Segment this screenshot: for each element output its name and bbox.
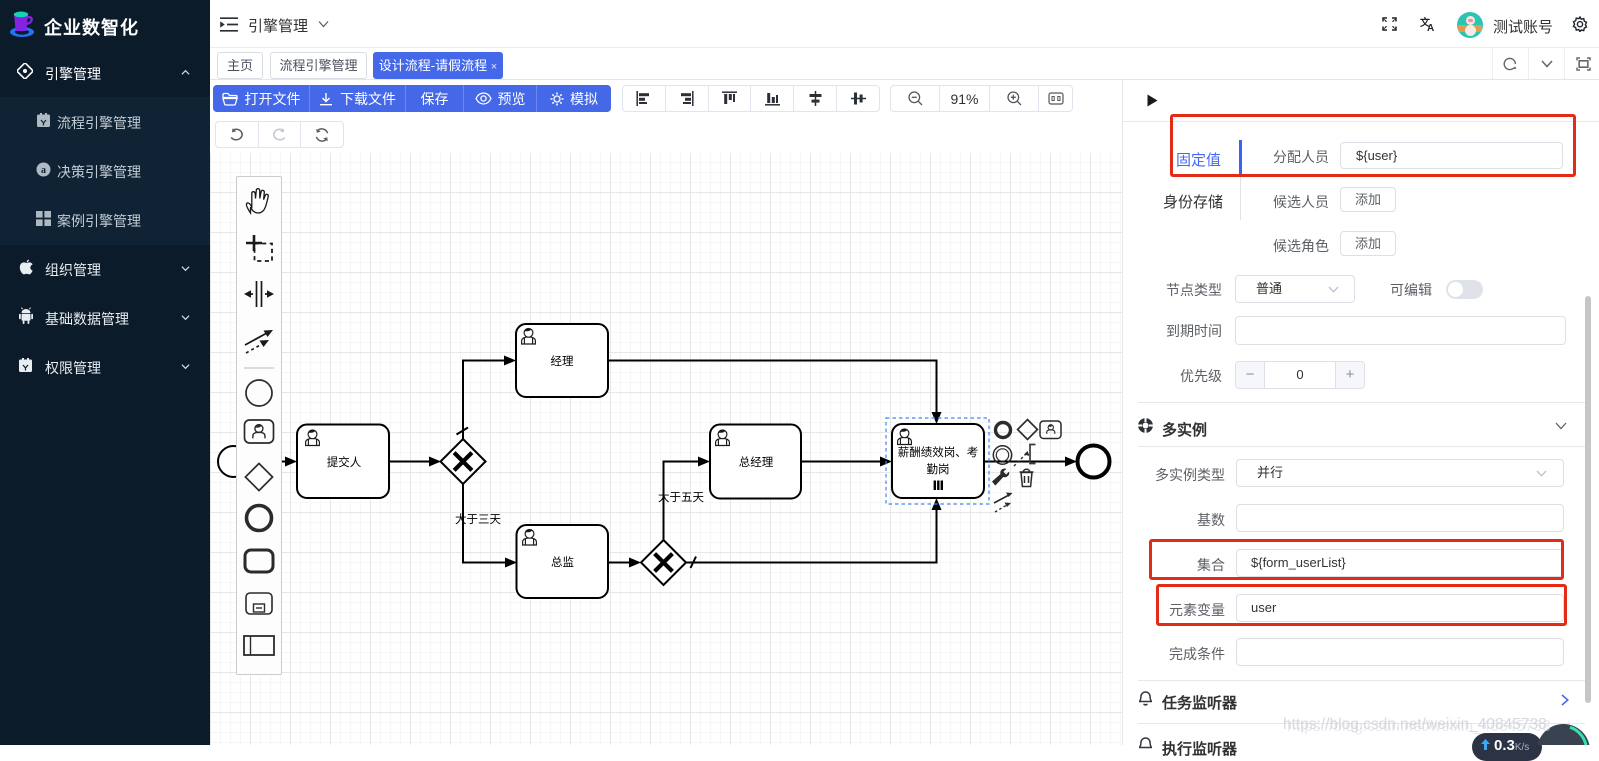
right side icons bbox=[1492, 48, 1599, 79]
flow 总监->gw2 bbox=[608, 562, 631, 564]
section: 任务监听器 bbox=[1139, 691, 1152, 706]
flow gw2->薪酬 bottom bbox=[686, 508, 937, 563]
flow 薪酬->end bbox=[984, 461, 1066, 463]
row: 基数 bbox=[1123, 510, 1225, 530]
row: 集合 (red) bbox=[1123, 555, 1225, 575]
经理 task bbox=[516, 324, 608, 397]
薪酬 task bbox=[892, 424, 984, 498]
arrowheads bbox=[285, 356, 1077, 568]
row: 节点类型 / 可编辑 bbox=[1123, 280, 1222, 300]
selection dashed box bbox=[886, 418, 989, 504]
gateway entry bbox=[245, 463, 272, 490]
svg-text:总经理: 总经理 bbox=[739, 455, 774, 469]
gateway gw1 bbox=[441, 439, 486, 484]
task entry bbox=[245, 550, 273, 572]
row: 候选人员 bbox=[1123, 192, 1329, 212]
svg-text:a: a bbox=[41, 165, 46, 176]
start event entry bbox=[246, 380, 272, 406]
end event bbox=[1078, 446, 1110, 478]
user task entry bbox=[245, 420, 274, 443]
row: 候选角色 bbox=[1123, 236, 1329, 256]
subprocess entry bbox=[246, 593, 272, 614]
提交人 task bbox=[297, 425, 389, 499]
net speed pill bbox=[1472, 733, 1542, 761]
zoom group bbox=[890, 85, 1073, 112]
tab labels bbox=[1176, 149, 1221, 170]
participant entry bbox=[244, 636, 274, 655]
svg-text:A: A bbox=[1427, 23, 1434, 32]
flow start->提交人 bbox=[249, 461, 287, 463]
wrench bbox=[992, 469, 1009, 486]
collapse arrow bbox=[1147, 94, 1158, 107]
end event entry bbox=[247, 506, 272, 531]
row: 优先级 bbox=[1123, 366, 1222, 386]
task user icons bbox=[306, 430, 320, 446]
connect arrows bbox=[994, 493, 1013, 513]
lasso tool bbox=[246, 235, 272, 261]
svg-text:勤岗: 勤岗 bbox=[927, 463, 950, 476]
row: 分配人员 bbox=[1123, 147, 1329, 167]
row: 多实例类型 bbox=[1123, 465, 1225, 485]
总经理 task bbox=[710, 425, 801, 499]
global connect bbox=[245, 330, 273, 353]
right icons bbox=[1382, 17, 1397, 31]
flow gw1->经理 bbox=[463, 361, 506, 440]
总监 task bbox=[517, 525, 609, 598]
svg-text:提交人: 提交人 bbox=[327, 455, 362, 469]
svg-text:总监: 总监 bbox=[551, 555, 574, 569]
undo row bbox=[215, 121, 344, 148]
flow 提交人->gw1 bbox=[389, 461, 431, 463]
flow 经理->薪酬 top bbox=[608, 361, 937, 415]
gateway X marks bbox=[456, 454, 671, 570]
separator bbox=[244, 367, 274, 369]
svg-text:大于五天: 大于五天 bbox=[658, 490, 704, 504]
watermark bbox=[1283, 716, 1599, 736]
flow gw2->总经理 bbox=[664, 462, 701, 541]
svg-text:薪酬绩效岗、考: 薪酬绩效岗、考 bbox=[898, 445, 979, 459]
default slash gw2 bbox=[691, 557, 697, 569]
row: 完成条件 bbox=[1123, 644, 1225, 664]
flow 总经理->薪酬 bbox=[801, 461, 882, 463]
gateway gw2 bbox=[641, 540, 686, 585]
row: 到期时间 bbox=[1123, 321, 1222, 341]
section: 多实例 bbox=[1138, 418, 1153, 433]
monitor circle bbox=[1537, 724, 1590, 745]
trash bbox=[1020, 469, 1034, 486]
flow gw1->总监 bbox=[463, 484, 507, 563]
default slash gw1 bbox=[457, 428, 469, 435]
space tool bbox=[244, 281, 274, 307]
align group bbox=[622, 85, 880, 112]
MI marker bbox=[935, 481, 942, 491]
start event bbox=[218, 446, 249, 477]
red annotation 1 bbox=[1170, 114, 1576, 177]
palette bbox=[236, 176, 282, 675]
svg-text:经理: 经理 bbox=[551, 355, 574, 368]
svg-text:大于三天: 大于三天 bbox=[455, 512, 501, 526]
row: 元素变量 (red) bbox=[1123, 600, 1225, 620]
scrollbar bbox=[1585, 296, 1591, 703]
hand tool bbox=[246, 189, 268, 213]
partial bottom section bbox=[1139, 737, 1152, 752]
task labels bbox=[327, 355, 979, 569]
